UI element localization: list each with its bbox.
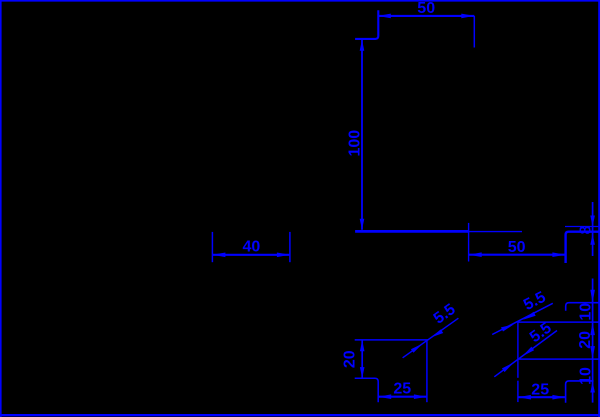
detail view lower-right: extension line upper bbox=[518, 321, 599, 323]
extension line left of dimension 40 bbox=[211, 232, 213, 262]
thin extension line at y=231 bbox=[469, 231, 522, 233]
detail view lower-right: left extension line upper part bbox=[517, 322, 519, 378]
dimension line 40 with arrowheads bbox=[212, 253, 290, 258]
svg-text:100: 100 bbox=[346, 130, 363, 157]
svg-text:10: 10 bbox=[578, 303, 595, 321]
svg-text:25: 25 bbox=[393, 381, 411, 398]
svg-text:40: 40 bbox=[243, 238, 261, 255]
dimension line 50 (top) with arrowheads bbox=[378, 14, 475, 19]
thickness dimension line 5.5 lower (lower-right diagonal) with opposed arrowheads bbox=[494, 331, 557, 377]
extension line right of dimension 50 (top) bbox=[473, 16, 475, 48]
svg-text:50: 50 bbox=[508, 239, 526, 256]
extension line right of dimension 40 bbox=[289, 232, 291, 262]
detail view lower-left: top extension line bbox=[355, 339, 429, 341]
extension line left of dimension 50 (right) bbox=[468, 223, 470, 262]
svg-text:20: 20 bbox=[342, 350, 359, 368]
svg-text:8: 8 bbox=[578, 225, 595, 234]
dimension line 50 (right) with arrowheads bbox=[469, 252, 566, 257]
thick extension line at y=231 bbox=[355, 230, 469, 233]
stacked dimension line 10/20/10 (right edge) with arrowheads bbox=[590, 279, 595, 403]
jogged extension elbow left of dimension 50 (top) bbox=[355, 10, 378, 39]
dimension line 100 (vertical) with arrowheads bbox=[360, 40, 365, 230]
svg-text:10: 10 bbox=[578, 367, 595, 385]
jogged extension elbow at step (lower-left) bbox=[355, 378, 379, 402]
svg-text:20: 20 bbox=[577, 331, 594, 349]
thickness dimension line 5.5 (lower-left diagonal) with opposed arrowheads bbox=[403, 318, 459, 358]
extension line top of dimension 8 bbox=[565, 226, 599, 228]
dimension line 20 (lower-left) with arrowheads bbox=[360, 340, 365, 378]
detail view lower-right: jogged extension elbow top bbox=[566, 303, 600, 311]
jogged extension elbow right of dimension 50 (right) bbox=[566, 232, 600, 263]
dimension line 8 (vertical) with outside arrowheads bbox=[590, 202, 595, 256]
detail view lower-right: jogged extension elbow bottom bbox=[566, 381, 594, 403]
detail view lower-right: left extension line lower part bbox=[517, 381, 519, 402]
detail view lower-left: right extension line bbox=[426, 340, 428, 402]
svg-text:50: 50 bbox=[417, 0, 435, 17]
svg-text:25: 25 bbox=[531, 381, 549, 398]
dimension line 25 (lower-right) with arrowheads bbox=[518, 395, 566, 400]
thickness dimension line 5.5 upper (lower-right diagonal) with opposed arrowheads bbox=[492, 303, 553, 334]
detail view lower-right: extension line lower bbox=[518, 358, 599, 360]
dimension line 25 (lower-left) with arrowheads bbox=[378, 394, 427, 399]
